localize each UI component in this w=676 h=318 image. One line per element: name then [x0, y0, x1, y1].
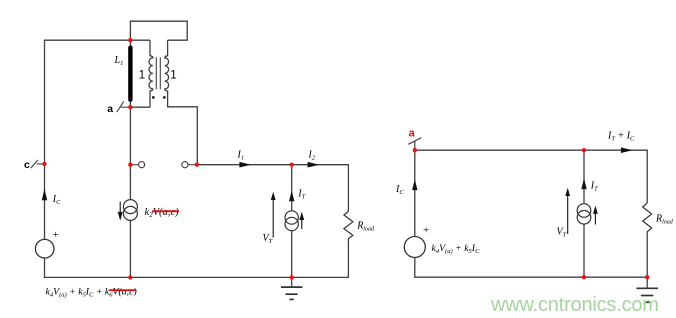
inductor L1 (thick bar)	[128, 48, 132, 100]
wire: right Rload branch upper	[646, 150, 648, 203]
wire: right circuit left branch lower	[414, 258, 416, 278]
ground (right circuit)	[636, 277, 658, 302]
wire: k2 source to bottom rail	[129, 220, 131, 277]
side arrow of right VT source	[593, 206, 598, 225]
resistor Rload (right circuit)	[643, 203, 652, 235]
svg-text:www.cntronics.com: www.cntronics.com	[490, 294, 659, 316]
svg-text:a: a	[107, 103, 113, 115]
voltage source V1 (left)	[35, 239, 54, 258]
junction dot: top rail / L1 branch	[128, 38, 132, 42]
current source VT (left circuit)	[285, 211, 298, 231]
ground (left circuit)	[281, 277, 303, 299]
wire: Rload branch upper	[347, 164, 349, 211]
wire: left circuit top rail	[44, 39, 150, 41]
svg-text:+: +	[423, 225, 429, 237]
arrow of k2 source (down)	[118, 202, 123, 221]
wire: VT source branch upper	[291, 165, 293, 211]
current source VT (right circuit)	[577, 204, 591, 224]
dependent current source k2	[123, 200, 137, 221]
junction dot: node c	[42, 162, 46, 166]
junction dot: port left	[128, 163, 132, 167]
svg-text:k2V(a,c): k2V(a,c)	[145, 207, 180, 219]
svg-text:I2: I2	[308, 150, 316, 162]
transformer secondary winding	[165, 40, 198, 165]
svg-text:L1: L1	[114, 55, 124, 67]
terminal port right	[182, 162, 197, 168]
svg-text:IT + IC: IT + IC	[607, 131, 635, 143]
transformer polarity dot right	[163, 96, 166, 99]
transformer polarity dot left	[152, 96, 155, 99]
strike (red) over V(a,c)	[152, 210, 179, 212]
resistor Rload (left circuit)	[344, 212, 353, 241]
svg-text:k4V(a) + k5IC + k6V(a,c): k4V(a) + k5IC + k6V(a,c)	[46, 287, 137, 299]
junction dot: output rail / VT branch	[290, 163, 294, 167]
wire: left circuit bottom rail	[44, 276, 349, 278]
svg-text:k4V(a) + k5IC: k4V(a) + k5IC	[432, 243, 481, 255]
svg-text:I1: I1	[237, 150, 245, 162]
svg-text:VT: VT	[263, 233, 273, 245]
wire: L1 branch (top rail to k2 source)	[129, 40, 131, 199]
node c marker	[31, 160, 45, 168]
current arrow IT (left circuit)	[289, 191, 294, 202]
wire: left branch lower	[44, 258, 46, 278]
svg-text:c: c	[24, 159, 30, 171]
wire: VT source branch lower	[291, 231, 293, 278]
junction dot: port right / secondary	[195, 163, 199, 167]
wire: Rload branch lower	[347, 240, 349, 277]
wire: right VT branch upper	[583, 150, 585, 204]
wire: right circuit bottom rail	[414, 276, 648, 278]
svg-text:IC: IC	[52, 194, 61, 206]
voltage arrow VT (right circuit)	[565, 188, 570, 234]
voltage source V2 (right)	[404, 237, 425, 258]
svg-text:IC: IC	[395, 184, 404, 196]
junction dot: bottom rail / k2 branch	[128, 275, 132, 279]
wire: node a to primary bottom	[130, 106, 150, 108]
strike (red) over k6 term	[109, 289, 136, 291]
svg-text:Rload: Rload	[356, 220, 375, 232]
junction dot: right node a corner	[413, 148, 417, 152]
svg-text:a: a	[409, 128, 416, 140]
junction dot: right bottom rail / VT branch	[582, 275, 586, 279]
svg-text:IT: IT	[590, 181, 598, 193]
current arrow IT (right circuit)	[581, 178, 586, 189]
wire: right circuit left branch upper	[414, 150, 416, 236]
side arrow of VT source	[299, 212, 304, 229]
svg-text:1: 1	[170, 70, 176, 82]
wire: right Rload branch lower	[646, 235, 648, 277]
wire: transformer top loop	[130, 21, 187, 40]
node a marker (left circuit)	[117, 101, 131, 112]
junction dot: right bottom rail / Rload	[645, 275, 649, 279]
wire: right circuit top rail	[414, 149, 648, 151]
current arrow I2	[308, 162, 320, 168]
wire: output rail	[197, 164, 349, 166]
voltage arrow VT (left circuit)	[271, 192, 276, 238]
transformer primary winding	[149, 40, 153, 107]
node a marker (right circuit)	[408, 138, 421, 151]
junction dot: node a	[128, 105, 132, 109]
svg-text:VT: VT	[557, 227, 567, 239]
wire: left branch upper (source branch)	[44, 40, 46, 239]
svg-text:+: +	[53, 229, 59, 241]
junction dot: right top rail / VT branch	[582, 148, 586, 152]
svg-text:IT: IT	[297, 188, 305, 200]
transformer core	[156, 57, 160, 89]
current arrow I_C (right)	[412, 179, 417, 190]
svg-text:Rload: Rload	[655, 214, 674, 226]
terminal port left	[130, 162, 144, 168]
current arrow I1	[239, 162, 251, 168]
wire: right VT branch lower	[583, 224, 585, 277]
current arrow IT+IC (top rail right)	[621, 147, 633, 153]
current arrow I_C (left branch)	[42, 189, 47, 201]
junction dot: bottom rail / ground	[290, 275, 294, 279]
svg-text:1: 1	[139, 70, 145, 82]
